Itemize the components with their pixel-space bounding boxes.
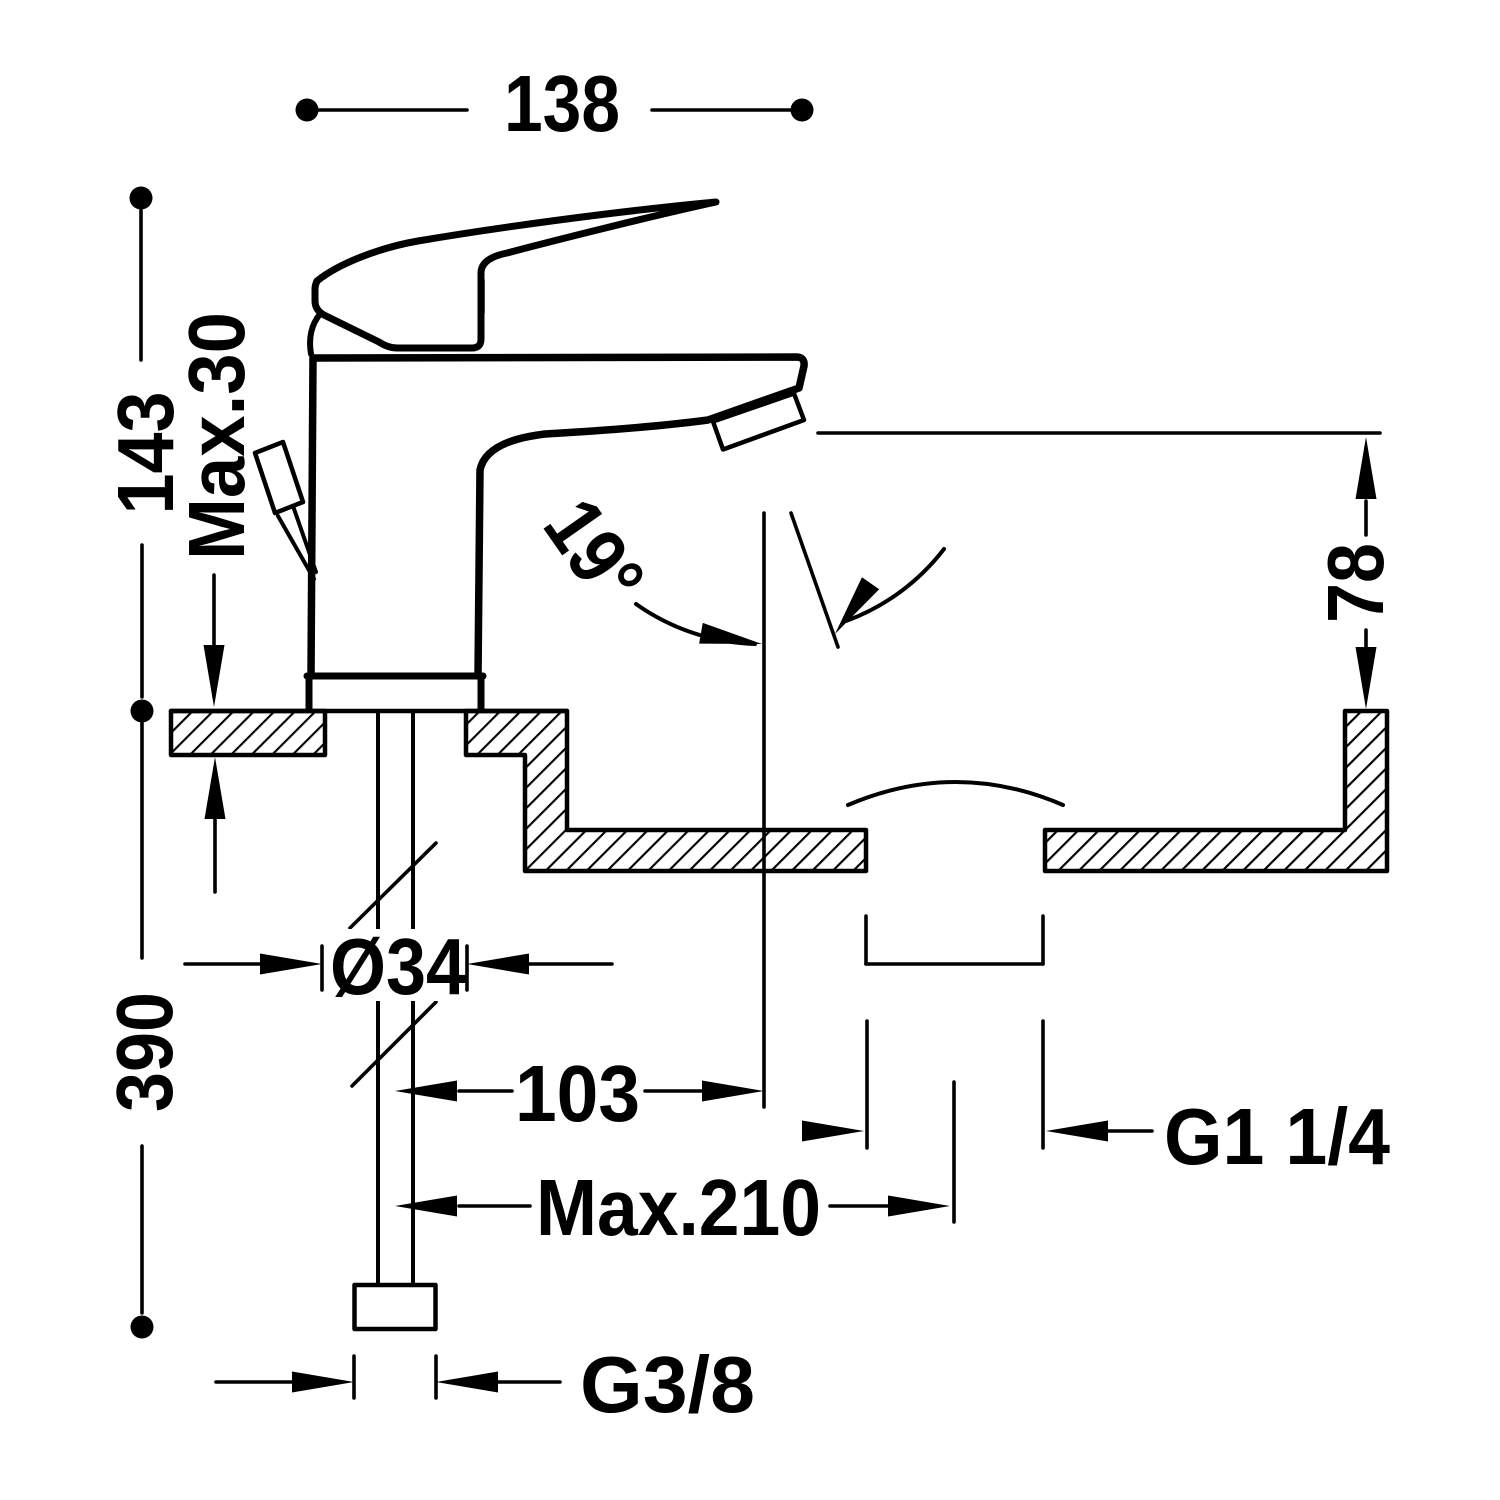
drain centerline tick bbox=[952, 1082, 956, 1222]
svg-text:Max.210: Max.210 bbox=[536, 1163, 821, 1252]
dimension 390 dot bottom bbox=[131, 1316, 154, 1339]
dimension 78 upper shaft bbox=[1364, 501, 1368, 535]
supply hose line right bbox=[411, 711, 415, 1284]
pop-up rod line left bbox=[278, 516, 314, 579]
dimension 138 line right bbox=[652, 108, 791, 112]
dimension Max.210 left arrow bbox=[395, 1196, 457, 1217]
hose break mark upper bbox=[350, 843, 436, 928]
dimension 143/390 shared dot bbox=[131, 700, 154, 723]
dimension Ø34 right arrow bbox=[527, 962, 612, 966]
svg-text:G3/8: G3/8 bbox=[580, 1340, 755, 1429]
dimension Ø34 tick left bbox=[320, 946, 324, 990]
supply hose line left bbox=[376, 711, 380, 1284]
dimension text Ø34 background bbox=[323, 929, 469, 1001]
dimension 103 left arrow bbox=[395, 1081, 457, 1102]
G1 1/4 extension tick left bbox=[865, 1021, 869, 1148]
svg-text:103: 103 bbox=[515, 1049, 640, 1138]
svg-text:138: 138 bbox=[504, 59, 620, 148]
G3/8 left arrow bbox=[216, 1380, 294, 1384]
dimension Ø34 left arrow bbox=[185, 962, 262, 966]
dimension 103 right arrow bbox=[645, 1089, 704, 1093]
drain tailpiece right line bbox=[1041, 916, 1045, 964]
faucet body outline bbox=[311, 357, 804, 676]
svg-text:78: 78 bbox=[1311, 543, 1400, 623]
G1 1/4 extension tick right bbox=[1041, 1021, 1045, 1148]
dimension 390 line upper bbox=[140, 723, 144, 958]
G3/8 right arrow bbox=[436, 1372, 498, 1393]
dimension Max.210 right arrow bbox=[830, 1204, 890, 1208]
dimension 78 upper arrowhead bbox=[1356, 437, 1377, 499]
pop-up rod line right bbox=[293, 506, 316, 572]
basin bottom curve bbox=[848, 782, 1063, 805]
svg-text:G1 1/4: G1 1/4 bbox=[1164, 1092, 1390, 1181]
G1 1/4 left arrowhead bbox=[802, 1121, 864, 1142]
G1 1/4 right arrow bbox=[1046, 1121, 1108, 1142]
Max.30 lower arrow shaft bbox=[213, 815, 217, 892]
svg-text:Ø34: Ø34 bbox=[330, 922, 466, 1011]
dimension 78 lower arrowhead bbox=[1356, 647, 1377, 709]
19 deg arc left bbox=[636, 604, 755, 644]
dimension 143 line upper bbox=[139, 210, 143, 360]
outlet height reference line bbox=[818, 431, 1380, 435]
counter deck top line bbox=[171, 709, 567, 714]
stream angle line bbox=[791, 513, 838, 647]
dimension 138 dot left bbox=[296, 99, 319, 122]
Max.30 upper arrowhead bbox=[204, 645, 225, 707]
dimension 138 dot right bbox=[791, 99, 814, 122]
Max.30 upper arrow shaft bbox=[212, 575, 216, 650]
hose break mark lower bbox=[352, 1002, 436, 1086]
G3/8 tick right bbox=[434, 1356, 438, 1398]
dimension 138 line left bbox=[318, 108, 467, 112]
cartridge dome arc bbox=[310, 314, 320, 354]
dimension 143 line lower bbox=[140, 545, 144, 697]
drain tailpiece bottom line bbox=[866, 962, 1043, 966]
dimension Ø34 tick right bbox=[465, 946, 469, 990]
svg-text:Max.30: Max.30 bbox=[172, 312, 261, 560]
aerator bbox=[713, 394, 804, 450]
Max.30 lower arrowhead bbox=[205, 757, 226, 819]
basin wall cross-section right bbox=[1045, 711, 1387, 871]
dimension 143 dot top bbox=[130, 187, 153, 210]
lever handle outline bbox=[315, 202, 716, 348]
basin step cross-section middle bbox=[466, 711, 866, 871]
pop-up rod knob bbox=[255, 442, 303, 513]
faucet base flange bbox=[307, 676, 483, 709]
dimension 78 lower shaft bbox=[1364, 630, 1368, 648]
G3/8 tick left bbox=[352, 1356, 356, 1398]
spout outlet axis line bbox=[762, 513, 766, 1107]
counter slab left bbox=[171, 711, 325, 755]
lever front face mark bbox=[479, 280, 485, 313]
19 deg arc right bbox=[846, 549, 944, 621]
svg-text:390: 390 bbox=[100, 992, 189, 1112]
dimension 390 line lower bbox=[140, 1146, 144, 1313]
hose end fitting block bbox=[355, 1285, 436, 1329]
drain tailpiece left line bbox=[864, 916, 868, 964]
